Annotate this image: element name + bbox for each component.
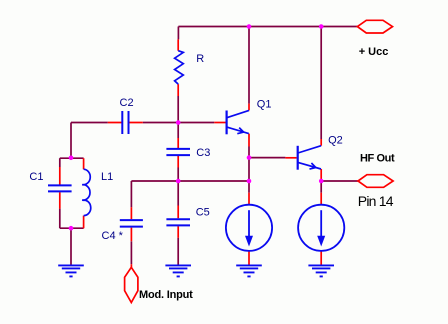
ground (tank circuit) xyxy=(58,265,84,276)
wire node B to current source I1 xyxy=(248,181,250,193)
svg-text:Q1: Q1 xyxy=(257,98,272,110)
node G (tank bottom) xyxy=(69,226,74,231)
svg-text:C4 *: C4 * xyxy=(102,230,124,242)
wire node G to ground xyxy=(70,228,72,265)
node D (C3 / C5 / C4 row) xyxy=(176,179,181,184)
node junction top rail / Q1 collector xyxy=(247,24,252,29)
capacitor C2 xyxy=(108,111,143,134)
node junction top rail / Q2 collector xyxy=(319,24,324,29)
transistor Q2 xyxy=(285,139,321,181)
node E (R / C2 / C3 / Q1 base) xyxy=(176,120,181,125)
capacitor C5 xyxy=(166,206,190,238)
wire node A to Q2 base xyxy=(249,157,285,159)
current source I2 xyxy=(298,193,344,266)
wire C2 right to node E xyxy=(143,122,178,124)
wire row2 C4 corner to node B xyxy=(131,180,249,182)
wire R top lead xyxy=(177,27,179,40)
svg-text:Pin 14: Pin 14 xyxy=(358,193,394,209)
port + Ucc xyxy=(357,20,392,33)
node B (row2 / I1) xyxy=(247,179,252,184)
wire top rail xyxy=(178,26,357,28)
wire node E to Q1 base xyxy=(178,122,214,124)
wire left vertical to node F xyxy=(70,123,72,159)
wire node C to current source I2 xyxy=(320,181,322,193)
node C (Q2 emitter / I2 / HF Out) xyxy=(319,179,324,184)
svg-text:R: R xyxy=(196,53,204,65)
wire C1 top lead xyxy=(59,158,61,167)
port HF Out (Pin 14) xyxy=(358,175,393,188)
svg-text:HF Out: HF Out xyxy=(360,153,395,165)
wire C5 bottom to ground xyxy=(177,238,179,266)
svg-text:Q2: Q2 xyxy=(328,135,343,147)
port Mod. Input xyxy=(125,264,138,302)
wire node C to HF Out port xyxy=(321,180,358,182)
svg-text:+ Ucc: + Ucc xyxy=(359,46,389,58)
ground (I1) xyxy=(236,265,262,276)
wire C4 bottom to port xyxy=(130,241,132,264)
svg-text:C1: C1 xyxy=(29,171,43,183)
node A (Q1 emitter / Q2 base) xyxy=(247,155,252,160)
svg-text:L1: L1 xyxy=(101,171,113,183)
current source I1 xyxy=(226,193,272,266)
svg-text:C3: C3 xyxy=(196,147,210,159)
wire Q1 emitter to node B xyxy=(248,147,250,182)
wire C1 bottom lead xyxy=(59,209,61,229)
ground (I2) xyxy=(308,265,334,276)
capacitor C3 xyxy=(166,138,190,168)
wire R bottom lead xyxy=(177,96,179,122)
wire C5 top lead xyxy=(177,181,179,206)
svg-text:Mod. Input: Mod. Input xyxy=(139,289,193,301)
wire tank bottom branch xyxy=(60,227,84,229)
wire Q1 collector vertical xyxy=(248,27,250,104)
wire C3 top lead xyxy=(177,123,179,139)
transistor Q1 xyxy=(214,104,249,147)
capacitor C4 xyxy=(120,207,143,241)
wire tank top branch xyxy=(60,157,84,159)
ground (C5) xyxy=(165,265,191,276)
node F (tank top) xyxy=(69,156,74,161)
wire C3 bottom lead xyxy=(177,168,179,182)
svg-text:C5: C5 xyxy=(196,207,210,219)
capacitor C1 xyxy=(48,167,72,209)
wire C2 left row xyxy=(71,122,108,124)
inductor L1 xyxy=(82,158,91,228)
resistor R xyxy=(175,39,184,96)
wire Q2 collector vertical xyxy=(320,27,322,140)
svg-text:C2: C2 xyxy=(120,97,134,109)
wire C4 top lead xyxy=(130,181,132,207)
